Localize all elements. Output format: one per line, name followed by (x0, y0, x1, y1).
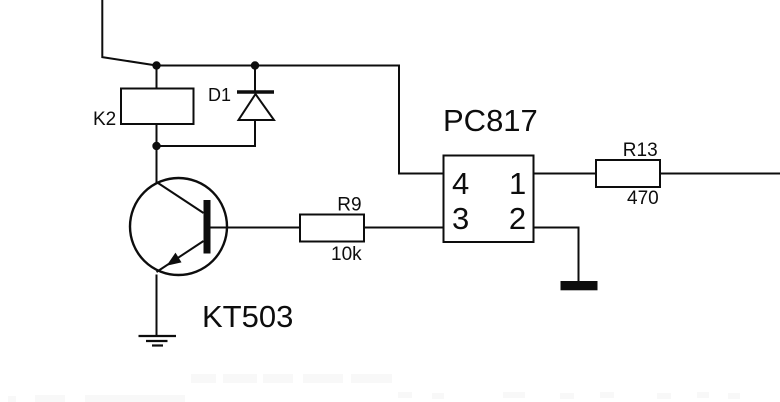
wire: opto pin 2 down to ground (534, 228, 579, 282)
svg-text:KT503: KT503 (202, 299, 293, 334)
node A (junction dot at relay top) (152, 61, 160, 69)
wire: rail down into relay K2 (156, 66, 158, 89)
relay K2 coil box (121, 89, 194, 125)
svg-text:4: 4 (452, 166, 469, 201)
svg-text:2: 2 (509, 201, 526, 236)
wire: base to R9 (211, 227, 301, 229)
svg-text:3: 3 (452, 201, 469, 236)
wire: main horizontal rail to vertical drop into opto pin 4 (157, 66, 444, 174)
optocoupler U1 PC817 (box) (444, 156, 534, 243)
transistor emitter diagonal (157, 241, 204, 272)
transistor emitter arrow (167, 253, 182, 266)
wire: collector lead into transistor (156, 146, 158, 183)
wire: collector node to diode bottom (157, 120, 256, 146)
svg-text:D1: D1 (208, 85, 231, 105)
transistor Q KT503 (circle) (130, 178, 227, 275)
transistor base bar (204, 200, 211, 254)
wire: R9 to opto pin 3 (364, 227, 444, 229)
svg-text:PC817: PC817 (443, 103, 538, 138)
faint cropped text artifacts at bottom (8, 374, 740, 402)
node C (junction dot relay bottom / collector) (152, 142, 160, 150)
ground (solid bar) (561, 281, 598, 290)
wire: diode top lead (254, 66, 256, 94)
resistor R9 body (300, 215, 364, 242)
transistor collector diagonal (157, 182, 204, 213)
svg-text:470: 470 (627, 188, 659, 209)
node B (junction dot at diode top) (251, 61, 259, 69)
wire: relay bottom to collector node (156, 124, 158, 146)
wire: top vertical feed (102, 0, 156, 66)
svg-text:10k: 10k (331, 244, 362, 265)
ground (emitter, 3-bar) (139, 336, 177, 346)
svg-text:K2: K2 (93, 109, 116, 130)
diode D1 (triangle, pointing up) (239, 94, 275, 120)
wire: opto pin 1 to R13 (534, 173, 597, 175)
svg-text:1: 1 (509, 166, 526, 201)
wire: R13 to right edge (660, 173, 780, 175)
resistor R13 body (596, 160, 660, 187)
diode D1 (cathode bar) (237, 90, 274, 94)
wire: emitter down to ground (156, 275, 158, 337)
svg-text:R13: R13 (623, 140, 658, 161)
svg-text:R9: R9 (337, 194, 361, 215)
